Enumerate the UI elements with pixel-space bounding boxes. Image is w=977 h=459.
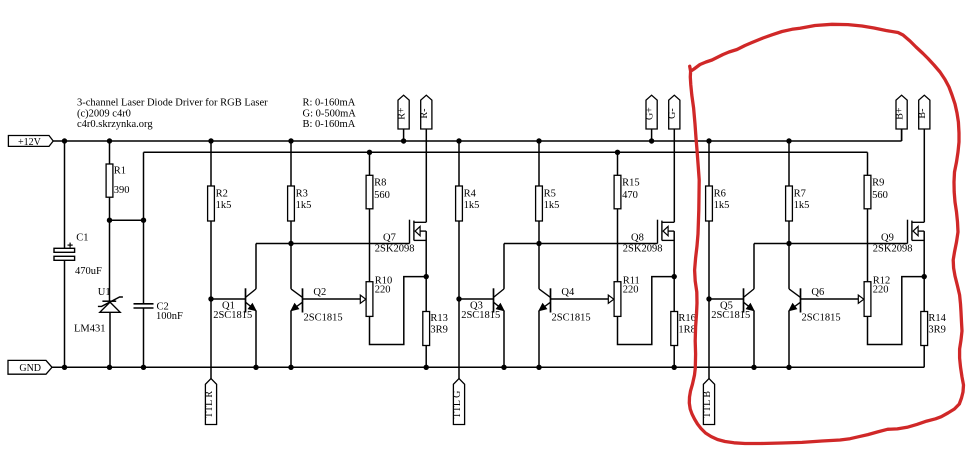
capacitor C1	[54, 243, 75, 261]
svg-text:560: 560	[872, 190, 888, 201]
transistor Q2 2SC1815	[291, 288, 303, 312]
wire source Q8	[673, 231, 675, 277]
node +12V junction R1	[107, 138, 112, 143]
svg-text:2SC1815: 2SC1815	[304, 313, 343, 324]
svg-text:3R9: 3R9	[928, 324, 946, 335]
svg-text:220: 220	[375, 284, 391, 295]
svg-text:1k5: 1k5	[464, 200, 480, 211]
connector flag B-	[917, 95, 930, 129]
svg-text:TTL R: TTL R	[204, 391, 215, 418]
svg-text:B-: B-	[917, 109, 928, 119]
svg-text:G-: G-	[667, 108, 678, 119]
node base junction Q5	[706, 296, 711, 301]
wire base Q2 to R10 wiper	[303, 298, 361, 300]
node GND junction Q4 emitter	[536, 365, 541, 370]
mosfet Q9 2SK2098	[908, 220, 925, 244]
svg-text:2SC1815: 2SC1815	[711, 310, 750, 321]
node GND junction R16	[672, 365, 677, 370]
wire U1 anode	[109, 312, 111, 367]
connector flag TTL G	[452, 379, 465, 425]
sense resistor R16	[671, 312, 678, 346]
resistor R15	[614, 175, 621, 209]
transistor Q5 2SC1815	[744, 288, 755, 312]
transistor Q4 2SC1815	[539, 288, 551, 312]
svg-text:100nF: 100nF	[156, 311, 183, 322]
wire base Q1	[211, 298, 246, 300]
node +12V junction R5	[536, 138, 541, 143]
wire R+ stem	[403, 129, 405, 141]
wire R7 bottom	[788, 221, 790, 244]
connector flag TTL R	[204, 379, 217, 425]
svg-text:R15: R15	[622, 178, 640, 189]
svg-text:3R9: 3R9	[430, 324, 448, 335]
wire R3 bottom	[290, 221, 292, 244]
svg-text:R7: R7	[794, 188, 806, 199]
wiper arrow R10	[360, 295, 366, 303]
wire R2 top	[210, 141, 212, 186]
svg-text:3-channel Laser Diode Driver f: 3-channel Laser Diode Driver for RGB Las…	[77, 98, 268, 109]
svg-text:560: 560	[374, 190, 390, 201]
svg-text:R-: R-	[419, 109, 430, 119]
wire C2 bottom	[143, 308, 145, 367]
wire R1 bottom	[109, 197, 111, 220]
transistor Q1 2SC1815	[246, 288, 257, 312]
wire R12 bottom path	[868, 277, 925, 345]
node gate line junction R7	[786, 241, 791, 246]
wire emitter Q5	[753, 311, 755, 368]
wire +12V rail riser to B+	[901, 130, 903, 142]
svg-text:(c)2009 c4r0: (c)2009 c4r0	[77, 108, 131, 119]
svg-text:Q4: Q4	[561, 287, 575, 298]
wire R5 top	[538, 141, 540, 186]
trimmer resistor R11	[614, 282, 621, 317]
svg-text:R16: R16	[678, 313, 696, 324]
svg-text:Q8: Q8	[631, 233, 644, 244]
transistor Q3 2SC1815	[494, 288, 505, 312]
wire R13 bottom	[425, 346, 427, 368]
shunt regulator U1	[98, 297, 123, 312]
svg-text:1k5: 1k5	[216, 200, 232, 211]
wire R6 bottom / TTL input	[708, 221, 710, 379]
wire base Q3	[459, 298, 494, 300]
wire emitter Q2	[290, 311, 292, 368]
node GND junction Q5 emitter	[751, 365, 756, 370]
wire source Q9	[923, 231, 925, 277]
svg-text:R5: R5	[544, 188, 556, 199]
node vref junction R1/U1	[107, 218, 112, 223]
svg-text:2SC1815: 2SC1815	[552, 313, 591, 324]
wire base Q6 to R12 wiper	[801, 298, 859, 300]
wire R- stem to drain	[425, 129, 427, 222]
svg-text:Q6: Q6	[811, 287, 824, 298]
wire gate line	[754, 243, 908, 245]
svg-text:G: 0-500mA: G: 0-500mA	[303, 108, 357, 119]
wire collector Q3	[503, 244, 505, 289]
node vref junction R15	[615, 150, 620, 155]
resistor R1	[106, 164, 113, 197]
sense resistor R14	[921, 312, 928, 346]
node gate line junction R3	[288, 241, 293, 246]
node +12V junction G+	[649, 138, 654, 143]
node +12V junction R4	[456, 138, 461, 143]
wire R13 top	[425, 277, 427, 312]
wire G+ stem	[651, 129, 653, 141]
+12V supply flag	[8, 136, 53, 148]
node +12V junction R+	[401, 138, 406, 143]
node GND junction C1	[62, 365, 67, 370]
resistor R8	[366, 175, 373, 209]
wire R9 bottom to R12	[867, 209, 869, 282]
wire source Q7	[425, 231, 427, 277]
wire collector Q5	[753, 244, 755, 289]
wire B- stem to drain	[923, 129, 925, 222]
wire base Q5	[709, 298, 744, 300]
svg-text:R2: R2	[216, 188, 228, 199]
svg-text:TTL B: TTL B	[702, 391, 713, 418]
wire R3 top	[290, 141, 292, 186]
connector flag B+	[894, 95, 907, 129]
resistor R2	[208, 186, 215, 221]
wire C2 top	[143, 220, 145, 304]
node vref junction C2	[141, 218, 146, 223]
resistor R5	[536, 186, 543, 221]
wiper arrow R11	[608, 295, 614, 303]
wiper arrow R12	[858, 295, 864, 303]
transistor Q6 2SC1815	[789, 288, 801, 312]
wire R14 top	[923, 277, 925, 312]
connector flag R+	[396, 95, 409, 129]
svg-text:R4: R4	[464, 188, 477, 199]
wire R11 bottom path	[618, 277, 675, 345]
wire vref drop to R9	[867, 152, 869, 175]
svg-text:R6: R6	[714, 188, 726, 199]
connector flag R-	[419, 95, 432, 129]
sense resistor R13	[423, 312, 430, 346]
svg-text:B: 0-160mA: B: 0-160mA	[303, 119, 356, 130]
wire emitter Q4	[538, 311, 540, 368]
wire vref riser	[143, 152, 145, 220]
resistor R3	[288, 186, 295, 221]
wire base Q4 to R11 wiper	[551, 298, 609, 300]
capacitor C2	[134, 304, 154, 308]
wire R14 bottom	[923, 346, 925, 368]
wire gate line	[504, 243, 658, 245]
svg-text:R9: R9	[872, 178, 884, 189]
svg-text:220: 220	[623, 284, 639, 295]
wire collector Q2	[290, 244, 292, 289]
svg-text:2SC1815: 2SC1815	[802, 313, 841, 324]
svg-text:c4r0.skrzynka.org: c4r0.skrzynka.org	[77, 119, 153, 130]
svg-text:1k5: 1k5	[296, 200, 312, 211]
svg-text:R1: R1	[114, 165, 126, 176]
node +12V junction R7	[786, 138, 791, 143]
wire R5 bottom	[538, 221, 540, 244]
node gate line junction R5	[536, 241, 541, 246]
connector flag G-	[667, 95, 680, 129]
svg-text:R8: R8	[374, 178, 386, 189]
svg-text:G+: G+	[644, 107, 655, 120]
connector flag G+	[644, 95, 657, 129]
svg-text:TTL G: TTL G	[452, 391, 463, 419]
wire R6 top	[708, 141, 710, 186]
svg-text:GND: GND	[19, 363, 41, 374]
wire collector Q6	[788, 244, 790, 289]
svg-text:Q9: Q9	[881, 233, 894, 244]
svg-text:R14: R14	[928, 313, 946, 324]
wire GND rail	[52, 366, 924, 368]
node source junction R16	[672, 274, 677, 279]
wire R8 top	[369, 152, 371, 175]
node GND junction Q2 emitter	[288, 365, 293, 370]
wire emitter Q6	[788, 311, 790, 368]
resistor R9	[864, 175, 871, 209]
node source junction R13	[424, 274, 429, 279]
svg-text:LM431: LM431	[74, 323, 106, 334]
node +12V junction R6	[706, 138, 711, 143]
wire R4 top	[458, 141, 460, 186]
trimmer resistor R10	[366, 282, 373, 317]
svg-text:2SC1815: 2SC1815	[461, 310, 500, 321]
node base junction Q3	[456, 296, 461, 301]
node vref junction R8	[367, 150, 372, 155]
wire R1 top	[109, 141, 111, 164]
svg-text:Q2: Q2	[313, 287, 326, 298]
node source junction R14	[922, 274, 927, 279]
GND supply flag	[8, 360, 52, 374]
svg-text:220: 220	[873, 284, 889, 295]
wire R16 top	[673, 277, 675, 312]
wire R10 bottom path	[370, 277, 427, 345]
svg-text:1k5: 1k5	[714, 200, 730, 211]
svg-text:1R8: 1R8	[678, 324, 696, 335]
svg-text:R13: R13	[430, 313, 448, 324]
resistor R7	[786, 186, 793, 221]
node GND junction C2	[141, 365, 146, 370]
wire R2 bottom / TTL input	[210, 221, 212, 379]
wire B+ stem	[901, 129, 903, 141]
wire C1 bottom	[64, 260, 66, 367]
svg-text:C1: C1	[76, 233, 88, 244]
svg-text:R3: R3	[296, 188, 308, 199]
wire C1 top	[64, 141, 66, 248]
svg-text:470uF: 470uF	[75, 266, 102, 277]
node +12V junction C1	[62, 138, 67, 143]
svg-text:2SK2098: 2SK2098	[623, 243, 663, 254]
svg-text:2SK2098: 2SK2098	[873, 243, 913, 254]
node GND junction Q1 emitter	[253, 365, 258, 370]
svg-text:1k5: 1k5	[794, 200, 810, 211]
wire R4 bottom / TTL input	[458, 221, 460, 379]
svg-text:2SK2098: 2SK2098	[375, 243, 415, 254]
node +12V junction R3	[288, 138, 293, 143]
svg-text:B+: B+	[894, 107, 905, 120]
wire +12V rail	[53, 140, 901, 142]
node +12V junction R2	[208, 138, 213, 143]
wire vref distribution line	[144, 151, 868, 153]
node GND junction R13	[424, 365, 429, 370]
wire U1 cathode	[109, 220, 111, 301]
svg-text:390: 390	[114, 185, 130, 196]
node base junction Q1	[208, 296, 213, 301]
resistor R6	[706, 186, 713, 221]
wire emitter Q3	[503, 311, 505, 368]
wire G- stem to drain	[673, 129, 675, 222]
mosfet Q7 2SK2098	[410, 220, 427, 244]
svg-text:Q7: Q7	[383, 233, 396, 244]
title text block	[77, 98, 268, 130]
wire R1 bottom to riser	[110, 219, 144, 221]
mosfet Q8 2SK2098	[658, 220, 675, 244]
node GND junction Q3 emitter	[501, 365, 506, 370]
svg-text:U1: U1	[98, 287, 111, 298]
current spec text block	[303, 98, 357, 130]
trimmer resistor R12	[864, 282, 871, 317]
svg-text:2SC1815: 2SC1815	[213, 310, 252, 321]
node GND junction Q6 emitter	[786, 365, 791, 370]
svg-text:+12V: +12V	[18, 137, 42, 148]
resistor R4	[456, 186, 463, 221]
wire R7 top	[788, 141, 790, 186]
wire R8 bottom to R10	[369, 209, 371, 282]
wire gate line	[256, 243, 410, 245]
connector flag TTL B	[702, 379, 715, 425]
wire R15 top	[617, 152, 619, 175]
wire R15 bottom to R11	[617, 209, 619, 282]
svg-text:470: 470	[622, 190, 638, 201]
svg-text:R+: R+	[396, 107, 407, 120]
wire collector Q1	[255, 244, 257, 289]
svg-text:1k5: 1k5	[544, 200, 560, 211]
svg-text:R: 0-160mA: R: 0-160mA	[303, 98, 356, 109]
node GND junction U1	[107, 365, 112, 370]
wire emitter Q1	[255, 311, 257, 368]
wire collector Q4	[538, 244, 540, 289]
red hand-drawn annotation circle around blue channel	[689, 24, 963, 443]
wire R16 bottom	[673, 346, 675, 368]
